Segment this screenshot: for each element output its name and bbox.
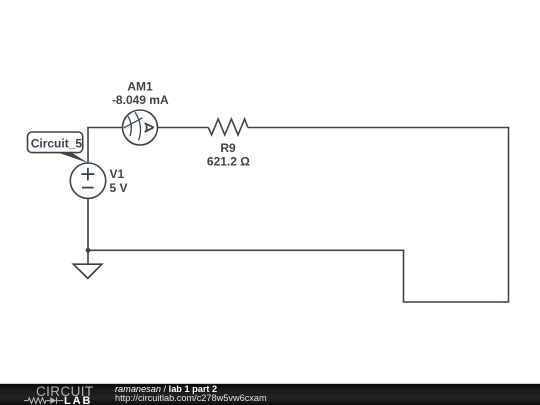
svg-text:-8.049 mA: -8.049 mA	[112, 93, 169, 107]
svg-text:621.2 Ω: 621.2 Ω	[207, 155, 250, 169]
svg-text:Circuit_5: Circuit_5	[31, 137, 83, 151]
svg-text:http://circuitlab.com/c278w5vw: http://circuitlab.com/c278w5vw6cxam	[115, 393, 267, 403]
svg-text:5 V: 5 V	[110, 181, 128, 195]
svg-text:AM1: AM1	[127, 80, 153, 94]
svg-text:LAB: LAB	[64, 395, 92, 405]
svg-text:R9: R9	[220, 141, 236, 155]
svg-text:V1: V1	[110, 167, 125, 181]
